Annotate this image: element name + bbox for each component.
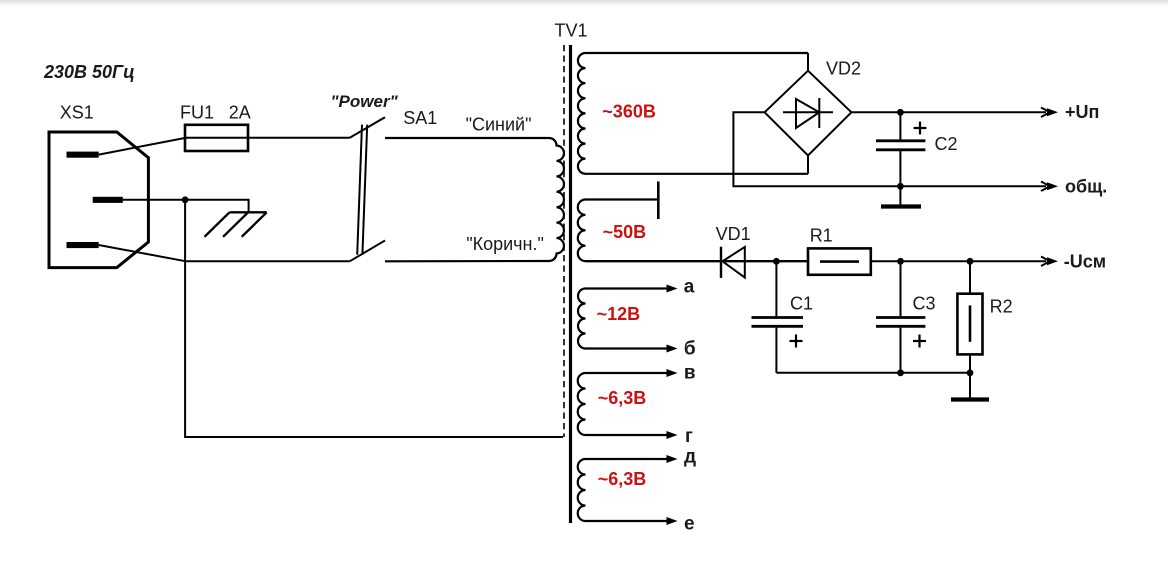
svg-text:VD2: VD2 <box>826 59 861 79</box>
svg-text:~50В: ~50В <box>603 222 647 242</box>
svg-text:R1: R1 <box>810 225 833 245</box>
svg-text:C1: C1 <box>790 294 813 314</box>
svg-text:б: б <box>684 338 696 359</box>
svg-text:"Синий": "Синий" <box>466 114 532 134</box>
svg-text:-Uсм: -Uсм <box>1064 252 1106 272</box>
svg-text:общ.: общ. <box>1065 177 1107 197</box>
svg-text:~360В: ~360В <box>602 101 656 121</box>
svg-text:TV1: TV1 <box>555 21 588 41</box>
svg-text:д: д <box>684 447 696 468</box>
svg-text:г: г <box>685 426 693 447</box>
svg-text:FU1: FU1 <box>180 103 214 123</box>
svg-text:VD1: VD1 <box>716 224 751 244</box>
svg-text:SA1: SA1 <box>403 108 437 128</box>
svg-text:в: в <box>684 363 696 384</box>
svg-text:~12В: ~12В <box>597 304 641 324</box>
svg-text:230В 50Гц: 230В 50Гц <box>43 62 135 82</box>
svg-text:е: е <box>684 513 695 534</box>
svg-text:а: а <box>684 276 695 297</box>
svg-text:XS1: XS1 <box>60 103 94 123</box>
svg-text:~6,3В: ~6,3В <box>598 388 647 408</box>
svg-text:~6,3В: ~6,3В <box>598 469 647 489</box>
svg-text:C2: C2 <box>935 134 958 154</box>
svg-text:R2: R2 <box>990 297 1013 317</box>
svg-text:C3: C3 <box>913 294 936 314</box>
svg-text:2A: 2A <box>229 103 251 123</box>
svg-text:+Uп: +Uп <box>1065 102 1099 122</box>
svg-text:"Power": "Power" <box>331 92 399 111</box>
svg-text:"Коричн.": "Коричн." <box>466 234 544 254</box>
